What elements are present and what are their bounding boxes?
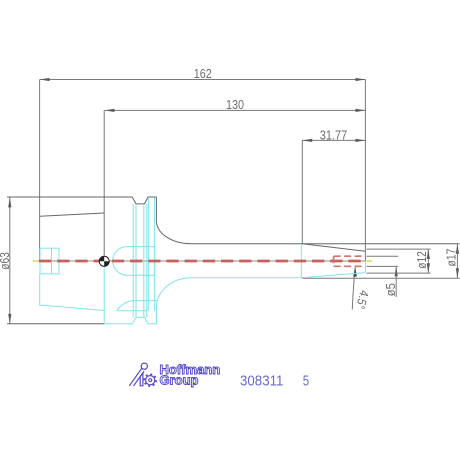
- extension lines dia5: [367, 255, 399, 257]
- coolant screw rect: [40, 248, 59, 274]
- svg-text:ø63: ø63: [0, 252, 12, 270]
- svg-text:ø5: ø5: [384, 283, 398, 296]
- dimension 162: [40, 79, 366, 81]
- groove projection lines: [132, 204, 134, 317]
- dimension dia17 vertical: [456, 244, 458, 278]
- flange lower left face: [103, 267, 105, 324]
- svg-text:ø17: ø17: [444, 248, 458, 266]
- red dashed centerline: [39, 260, 365, 263]
- extension lines dia12: [367, 248, 431, 250]
- shank taper line: [40, 213, 104, 216]
- extension line dia17 bottom: [302, 277, 459, 279]
- svg-text:162: 162: [194, 67, 212, 81]
- svg-text:31.77: 31.77: [320, 128, 348, 142]
- extension line left x=39.6 + upper left face: [39, 80, 41, 262]
- collar lower right face + fillet: [156, 278, 191, 324]
- tip taper top: [302, 244, 365, 252]
- svg-text:Group: Group: [160, 373, 199, 388]
- bottom extension dia63: [7, 323, 104, 325]
- leader 4.5deg: [352, 268, 355, 310]
- neck bottom line: [191, 277, 302, 279]
- neck top line to dia17 ext: [191, 243, 460, 245]
- Hoffmann Group logo text: [160, 362, 221, 388]
- cyan lower profile: [40, 198, 366, 324]
- collar right face + fillet: [156, 197, 191, 244]
- centerline thin: [33, 260, 365, 262]
- dimension 31.77: [302, 139, 365, 141]
- dimension 130: [105, 109, 366, 111]
- taper start transition: [300, 244, 302, 277]
- yellow centerline stubs: [34, 260, 39, 262]
- flange bottom with notch: [104, 317, 156, 324]
- Hoffmann Group logo icon: [129, 363, 156, 386]
- dimension dia5 vertical: [395, 266, 397, 297]
- svg-text:4.5°: 4.5°: [353, 289, 371, 311]
- upper profile: top line: [7, 197, 460, 324]
- shank lower left face: [40, 274, 105, 311]
- svg-text:ø12: ø12: [415, 251, 429, 269]
- dimension dia63 vertical: [9, 198, 11, 324]
- tip face lower: [364, 261, 366, 273]
- tip taper bottom: [302, 273, 366, 278]
- extension line right x=365.4: [364, 80, 366, 261]
- bore pill: [113, 247, 155, 276]
- svg-text:130: 130: [226, 98, 244, 112]
- scoop wing: [117, 301, 133, 311]
- extension line x=104.2: [103, 110, 105, 256]
- extension line x=302.3: [301, 140, 303, 243]
- dimension dia12 vertical: [427, 249, 429, 273]
- red dashed bore rectangle: [334, 256, 365, 266]
- center ball node: [99, 256, 109, 266]
- svg-text:3083115: 3083115: [240, 374, 309, 390]
- collar notch top: [132, 197, 156, 204]
